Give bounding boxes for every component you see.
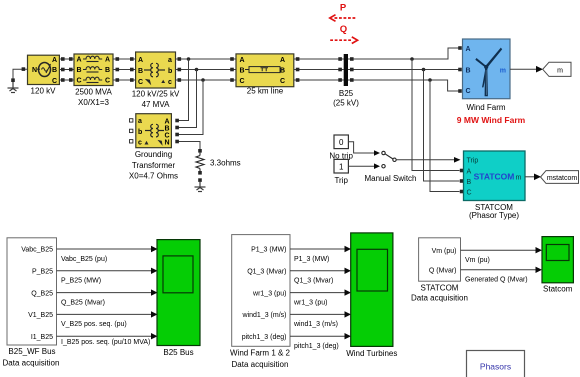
svg-text:A: A xyxy=(52,57,57,64)
wire Vabc_B25 xyxy=(57,248,152,250)
svg-text:m: m xyxy=(557,67,563,74)
scope Statcom xyxy=(542,237,573,283)
svg-text:P_B25: P_B25 xyxy=(32,269,53,276)
svg-text:C: C xyxy=(466,88,471,95)
wire 0 to switch upper input xyxy=(348,142,374,153)
wires transformer to 25 km line xyxy=(176,59,237,80)
svg-text:P: P xyxy=(340,3,347,14)
svg-text:25 km line: 25 km line xyxy=(247,87,284,96)
node branch a (to STATCOM A) xyxy=(410,57,414,61)
goto tag m xyxy=(543,62,571,76)
svg-text:C: C xyxy=(77,78,82,85)
svg-text:Vm (pu): Vm (pu) xyxy=(432,248,457,255)
svg-text:Q (Mvar): Q (Mvar) xyxy=(429,268,457,275)
svg-text:Q1_3 (Mvar): Q1_3 (Mvar) xyxy=(294,278,333,285)
svg-text:wr1_3 (pu): wr1_3 (pu) xyxy=(293,299,327,306)
wire I1_B25 xyxy=(57,335,152,337)
Wind Farm 1 & 2 Data acquisition block xyxy=(232,235,290,347)
wire tap a down to grounding transformer A xyxy=(177,59,189,121)
svg-text:C: C xyxy=(138,79,143,86)
svg-text:m: m xyxy=(516,175,522,182)
wire Q1_3 xyxy=(290,270,345,272)
svg-text:pitch1_3 (deg): pitch1_3 (deg) xyxy=(294,343,339,350)
scope B25 Bus xyxy=(157,240,200,346)
svg-text:a: a xyxy=(168,57,172,64)
wire V1_B25 xyxy=(57,313,152,315)
svg-text:C: C xyxy=(280,78,285,85)
svg-text:b: b xyxy=(138,129,142,136)
svg-text:120 kV: 120 kV xyxy=(31,87,57,96)
svg-text:A: A xyxy=(138,57,143,64)
svg-text:A: A xyxy=(240,57,245,64)
svg-text:Q1_3 (Mvar): Q1_3 (Mvar) xyxy=(247,269,286,276)
transformer 120 kV/25 kV 47 MVA xyxy=(136,52,176,88)
svg-text:3.3ohms: 3.3ohms xyxy=(210,159,241,168)
annotation arrow P (red, points left) xyxy=(330,15,357,22)
STATCOM block xyxy=(464,151,526,201)
grounding transformer block xyxy=(136,114,172,148)
svg-text:C: C xyxy=(467,189,472,196)
svg-text:47 MVA: 47 MVA xyxy=(142,100,171,109)
svg-text:B: B xyxy=(52,67,57,74)
svg-text:N: N xyxy=(164,140,169,147)
svg-text:V_B25 pos. seq. (pu): V_B25 pos. seq. (pu) xyxy=(61,321,127,328)
node branch c (to STATCOM C) xyxy=(428,78,432,82)
svg-text:B25 Bus: B25 Bus xyxy=(163,348,193,357)
svg-text:Data acquisition: Data acquisition xyxy=(411,294,468,303)
port a open square xyxy=(130,119,133,122)
svg-text:b: b xyxy=(168,68,172,75)
wires source to 2500MVA xyxy=(59,59,74,80)
svg-text:B: B xyxy=(77,67,82,74)
wire 1 to switch lower input xyxy=(348,165,374,167)
svg-text:wind1_3 (m/s): wind1_3 (m/s) xyxy=(242,312,287,319)
wire N to resistor xyxy=(177,142,200,150)
svg-text:STATCOM: STATCOM xyxy=(421,284,459,293)
svg-text:STATCOM: STATCOM xyxy=(474,171,515,181)
svg-text:C: C xyxy=(240,78,245,85)
svg-text:A: A xyxy=(280,57,285,64)
svg-text:Trip: Trip xyxy=(467,158,479,165)
svg-text:N: N xyxy=(32,67,37,74)
wire branch a down to STATCOM A xyxy=(412,59,460,171)
source impedance block 2500 MVA X0/X1=3 xyxy=(74,54,113,86)
B25 measurement bus bar xyxy=(344,54,348,86)
svg-text:I1_B25: I1_B25 xyxy=(31,334,53,341)
B25_WF Bus Data acquisition block xyxy=(7,238,57,345)
svg-text:V1_B25: V1_B25 xyxy=(28,312,53,319)
resistor 3.3ohms xyxy=(196,153,204,171)
svg-text:Vm (pu): Vm (pu) xyxy=(465,257,490,264)
node branch b (to STATCOM B) xyxy=(422,68,426,72)
svg-text:(Phasor Type): (Phasor Type) xyxy=(469,211,519,220)
svg-text:A: A xyxy=(467,168,472,175)
svg-text:120 kV/25 kV: 120 kV/25 kV xyxy=(132,90,180,99)
svg-text:Wind Farm: Wind Farm xyxy=(466,103,505,112)
svg-text:P1_3 (MW): P1_3 (MW) xyxy=(251,247,286,254)
svg-text:9 MW Wind Farm: 9 MW Wind Farm xyxy=(457,115,526,125)
svg-text:pitch1_3 (deg): pitch1_3 (deg) xyxy=(242,334,287,341)
svg-text:Wind Turbines: Wind Turbines xyxy=(346,349,397,358)
svg-text:I_B25 pos. seq. (pu/10 MVA): I_B25 pos. seq. (pu/10 MVA) xyxy=(61,339,150,346)
winding symbol Y (bottom-right) xyxy=(161,80,165,83)
wires 2500MVA to transformer xyxy=(113,59,136,80)
wire m to goto tag xyxy=(510,68,536,70)
svg-text:P1_3 (MW): P1_3 (MW) xyxy=(294,256,329,263)
wire wr1_3 xyxy=(290,292,345,294)
svg-text:P_B25 (MW): P_B25 (MW) xyxy=(61,278,101,285)
wires B25 to wind farm xyxy=(348,48,460,91)
svg-text:C: C xyxy=(164,133,169,140)
svg-text:a: a xyxy=(138,118,142,125)
svg-text:wind1_3 (m/s): wind1_3 (m/s) xyxy=(293,321,338,328)
svg-text:Q: Q xyxy=(340,24,347,35)
svg-text:c: c xyxy=(138,140,142,147)
constant block 1 xyxy=(334,159,348,173)
wire branch b down to STATCOM B xyxy=(424,70,460,182)
powergui block Phasors xyxy=(467,351,525,377)
constant block 0 xyxy=(334,135,348,149)
svg-text:mstatcom: mstatcom xyxy=(547,175,578,182)
svg-text:Vabc_B25 (pu): Vabc_B25 (pu) xyxy=(61,256,107,263)
svg-text:Transformer: Transformer xyxy=(132,161,176,170)
wire pitch1_3 xyxy=(290,335,345,337)
svg-text:2500 MVA: 2500 MVA xyxy=(75,88,112,97)
svg-text:A: A xyxy=(164,119,169,126)
wire tap b down to grounding transformer B xyxy=(177,70,197,128)
svg-text:0: 0 xyxy=(339,138,344,147)
wire STATCOM m to goto tag xyxy=(525,176,534,178)
port b open square xyxy=(130,129,133,132)
svg-text:B25: B25 xyxy=(339,89,354,98)
wire Generated Q xyxy=(461,269,536,271)
svg-text:Phasors: Phasors xyxy=(480,362,511,372)
port c open square xyxy=(130,140,133,143)
wire phase a xyxy=(348,48,460,59)
svg-text:B: B xyxy=(467,179,472,186)
wire tap c down to grounding transformer C xyxy=(177,80,203,135)
svg-text:C: C xyxy=(52,78,57,85)
svg-text:m: m xyxy=(500,67,506,74)
svg-text:Data acquisition: Data acquisition xyxy=(3,359,60,368)
svg-text:A: A xyxy=(105,57,110,64)
svg-text:A: A xyxy=(466,46,471,53)
svg-text:Q_B25: Q_B25 xyxy=(31,290,53,297)
wire branch c down to STATCOM C xyxy=(430,80,460,192)
wire N to ground xyxy=(13,69,28,80)
svg-text:Grounding: Grounding xyxy=(135,150,172,159)
svg-text:X0/X1=3: X0/X1=3 xyxy=(78,98,109,107)
svg-text:Statcom: Statcom xyxy=(543,285,573,294)
STATCOM port squares xyxy=(460,169,464,194)
svg-text:B: B xyxy=(138,68,143,75)
wire Vm xyxy=(461,249,536,251)
STATCOM Data acquisition block xyxy=(419,238,461,281)
wire phase c xyxy=(348,80,460,91)
wind turbine icon xyxy=(475,48,502,97)
goto tag mstatcom xyxy=(541,171,579,184)
svg-text:wr1_3 (pu): wr1_3 (pu) xyxy=(252,290,286,297)
svg-text:1: 1 xyxy=(339,162,344,171)
wind farm port squares xyxy=(458,46,462,93)
svg-text:Trip: Trip xyxy=(334,176,348,185)
wire switch to STATCOM Trip xyxy=(396,159,454,161)
node tap phase b xyxy=(195,68,199,72)
wire Q_B25 xyxy=(57,292,152,294)
svg-text:Data acquisition: Data acquisition xyxy=(232,360,289,369)
node tap phase c xyxy=(201,78,205,82)
wind farm block xyxy=(463,39,511,99)
wire P1_3 xyxy=(290,248,345,250)
manual switch xyxy=(382,151,396,168)
svg-text:Generated Q (Mvar): Generated Q (Mvar) xyxy=(465,276,528,283)
wire P_B25 xyxy=(57,270,152,272)
svg-text:(25 kV): (25 kV) xyxy=(333,99,359,108)
svg-text:Q_B25 (Mvar): Q_B25 (Mvar) xyxy=(61,299,105,306)
svg-text:Vabc_B25: Vabc_B25 xyxy=(21,247,53,254)
wire wind1_3 xyxy=(290,313,345,315)
svg-text:B: B xyxy=(164,126,169,133)
svg-text:B: B xyxy=(466,67,471,74)
25 km line block xyxy=(236,54,294,87)
ground (grounding resistor) xyxy=(198,178,202,182)
node tap phase a xyxy=(187,57,191,61)
svg-text:X0=4.7 Ohms: X0=4.7 Ohms xyxy=(129,172,178,181)
svg-text:C: C xyxy=(105,78,110,85)
wires 25 km line to B25 xyxy=(294,59,344,80)
svg-text:A: A xyxy=(77,57,82,64)
svg-text:B25_WF Bus: B25_WF Bus xyxy=(8,347,55,356)
svg-text:Manual Switch: Manual Switch xyxy=(364,174,416,183)
winding symbol Y (bottom-left) xyxy=(145,141,149,145)
source block 120 kV xyxy=(28,55,60,85)
ground symbol (source neutral) xyxy=(8,82,19,93)
svg-text:B: B xyxy=(105,67,110,74)
winding symbol arrow (bottom-right) xyxy=(159,141,163,145)
annotation arrow Q (red, points right) xyxy=(330,37,357,44)
wire phase b xyxy=(348,69,460,71)
svg-text:B: B xyxy=(240,67,245,74)
svg-text:c: c xyxy=(168,79,172,86)
winding symbol delta (bottom-left) xyxy=(146,80,151,85)
svg-text:Wind Farm 1 & 2: Wind Farm 1 & 2 xyxy=(230,349,291,358)
svg-text:B: B xyxy=(280,67,285,74)
scope Wind Turbines xyxy=(351,233,393,347)
